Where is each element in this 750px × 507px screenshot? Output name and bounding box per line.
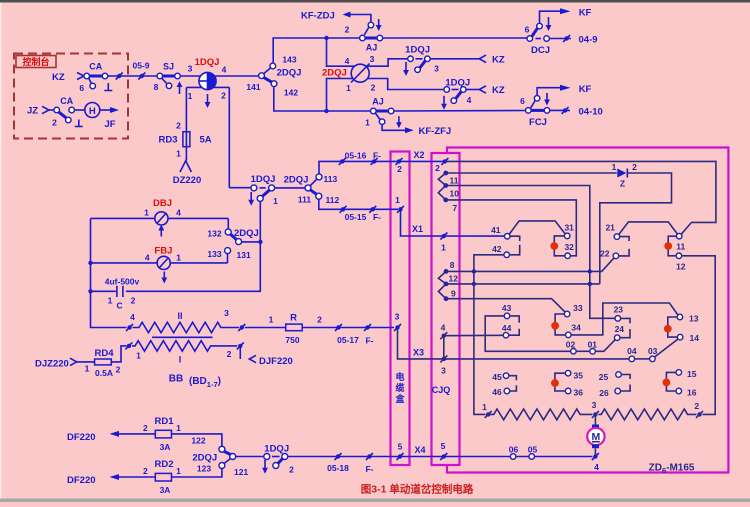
svg-text:2: 2 (371, 83, 376, 93)
CJQ pins 11/10/7 tie (438, 173, 446, 200)
terminal F- (X4 row) (367, 454, 371, 458)
contact group 21/22/11/12 hat arm (619, 222, 677, 235)
svg-text:6: 6 (79, 83, 84, 93)
svg-text:4uf-500v: 4uf-500v (105, 277, 140, 287)
contact group 41/42/31/32 hat arm (509, 221, 565, 234)
contact 24 (614, 335, 620, 341)
svg-text:05-18: 05-18 (327, 463, 349, 473)
svg-text:F-: F- (373, 212, 381, 222)
svg-text:05: 05 (528, 445, 538, 455)
contact 23 (615, 316, 621, 322)
svg-text:图3-1 单动道岔控制电路: 图3-1 单动道岔控制电路 (361, 483, 474, 496)
contact 26 (615, 388, 621, 394)
svg-text:05-9: 05-9 (132, 61, 149, 71)
wire diode return to pin 12 (600, 173, 672, 284)
CJQ pin 1 (442, 234, 446, 238)
svg-text:3A: 3A (160, 442, 171, 452)
svg-text:KZ: KZ (52, 72, 65, 83)
svg-text:RD1: RD1 (154, 416, 174, 427)
contact 41 (504, 233, 510, 239)
coil pin stubs and verticals (186, 86, 229, 88)
svg-text:04-9: 04-9 (579, 35, 598, 46)
contact 44 (503, 332, 509, 338)
wire contact 12 to resistor terminal 2 (682, 256, 715, 415)
terminal F- (R row) (365, 325, 369, 329)
svg-text:5: 5 (441, 441, 446, 451)
motor terminal 4 on X4 row (593, 454, 597, 458)
svg-text:2: 2 (289, 465, 294, 475)
contact 22 (613, 253, 619, 259)
svg-text:F-: F- (373, 151, 381, 161)
wire X4 row (288, 456, 593, 458)
page bottom border (0, 499, 750, 503)
contact AJ (bottom) (376, 110, 390, 113)
terminal 05-18 (336, 454, 340, 458)
wire 113 to 05-16 row (319, 161, 391, 174)
wire pin 8 to contact 22 (446, 258, 614, 271)
wire pin 10 to contact 23 (446, 186, 615, 319)
wire 143 up to top bus (273, 38, 359, 63)
svg-text:10: 10 (450, 189, 460, 199)
svg-text:05-17: 05-17 (337, 335, 359, 345)
contact 31 (564, 233, 570, 239)
svg-text:1: 1 (85, 364, 90, 374)
svg-text:42: 42 (492, 244, 502, 254)
terminal 1 (winding I left) (127, 344, 131, 348)
svg-text:46: 46 (492, 387, 502, 397)
control panel label box (16, 56, 56, 68)
CJQ pins 8/12/9 tie (438, 271, 446, 298)
svg-text:02: 02 (566, 340, 576, 350)
wire 03 diagonal to contact 14 (655, 339, 679, 357)
svg-text:0.5A: 0.5A (95, 368, 113, 378)
page left border (0, 3, 2, 499)
contact AJ (top) (365, 37, 378, 40)
motor resistor winding right (598, 409, 696, 420)
svg-text:3: 3 (592, 400, 597, 410)
wire contact 34 to contact 13 (571, 303, 678, 335)
svg-text:45: 45 (492, 372, 502, 382)
svg-text:14: 14 (690, 333, 700, 343)
bracket 11-12 with closed point (668, 236, 676, 256)
bracket 33-34 with closed point (555, 314, 565, 335)
transformer core (152, 336, 213, 338)
terminal F- (05-16 row) (372, 159, 376, 163)
svg-text:7: 7 (453, 203, 458, 213)
svg-text:11: 11 (676, 242, 685, 252)
wire 121 to 1DQJ contact (236, 456, 264, 458)
svg-text:X4: X4 (414, 445, 425, 455)
bracket 43-44 (509, 316, 519, 335)
svg-text:F-: F- (365, 464, 373, 474)
svg-text:1: 1 (176, 253, 181, 263)
contact DCJ (536, 38, 542, 40)
contact 35 (565, 370, 571, 376)
bracket 25-26 (621, 375, 630, 392)
wire 142 down to bottom bus (274, 87, 371, 111)
svg-text:111: 111 (298, 195, 312, 205)
wire coil pin1 to bottom bus (327, 79, 353, 112)
wire to JF (100, 109, 110, 111)
svg-text:2: 2 (143, 423, 148, 433)
svg-text:22: 22 (600, 248, 610, 258)
svg-text:AJ: AJ (366, 43, 378, 53)
contact 32 (565, 253, 571, 259)
wire left rail (91, 218, 127, 327)
svg-text:15: 15 (687, 369, 697, 379)
contact FCJ (531, 109, 545, 112)
svg-text:3: 3 (434, 64, 439, 74)
wire pin 11 to diode Z (446, 172, 617, 174)
svg-text:1: 1 (269, 315, 274, 325)
contact 02 on 02/01 row (571, 349, 577, 355)
svg-text:II: II (177, 311, 182, 321)
wire RD2 to 123 (172, 469, 222, 478)
svg-text:141: 141 (246, 82, 260, 92)
svg-text:DF220: DF220 (67, 432, 96, 443)
svg-text:2: 2 (345, 25, 350, 35)
svg-text:1: 1 (176, 466, 181, 476)
svg-text:24: 24 (615, 324, 625, 334)
contact 42 (504, 252, 510, 258)
svg-text:X3: X3 (413, 348, 424, 358)
svg-text:1DQJ: 1DQJ (251, 174, 276, 185)
svg-text:I: I (179, 355, 182, 365)
wire top bus to DCJ (383, 37, 527, 39)
svg-text:33: 33 (573, 303, 583, 313)
svg-text:11: 11 (450, 176, 459, 186)
svg-text:4: 4 (176, 208, 181, 218)
svg-text:KF-ZDJ: KF-ZDJ (301, 11, 335, 22)
svg-text:12: 12 (676, 262, 686, 272)
svg-text:1: 1 (136, 351, 141, 361)
svg-text:9: 9 (451, 289, 456, 299)
node junction top bus (324, 36, 328, 40)
svg-text:CA: CA (89, 62, 102, 72)
svg-text:41: 41 (491, 225, 501, 235)
bracket 15-16 with closed point (666, 372, 676, 391)
contact 1DQJ (middle row) (229, 187, 251, 189)
svg-text:04: 04 (627, 346, 637, 356)
contact 21 (614, 234, 620, 240)
wire KZ row (84, 75, 201, 77)
svg-text:AJ: AJ (372, 97, 384, 107)
svg-text:112: 112 (326, 195, 340, 205)
wire coil pin4 from top bus (327, 38, 355, 66)
svg-text:8: 8 (450, 260, 455, 270)
svg-text:KF: KF (579, 8, 592, 19)
svg-text:JF: JF (104, 119, 115, 130)
svg-text:122: 122 (191, 436, 205, 446)
svg-text:控制台: 控制台 (22, 56, 49, 67)
svg-text:23: 23 (614, 305, 624, 315)
indicator H (75, 109, 85, 111)
control panel dashed box 控制台 (14, 54, 128, 139)
motor resistor terminal 2 (697, 412, 701, 416)
svg-text:121: 121 (234, 467, 248, 477)
svg-text:6: 6 (520, 96, 525, 106)
bracket 13-14 with closed point (668, 317, 678, 337)
svg-text:05-15: 05-15 (345, 212, 367, 222)
terminal 05-15 (341, 207, 345, 211)
wire X2 row through cable box (391, 160, 447, 162)
svg-text:3: 3 (188, 64, 193, 74)
wire pin 12 row (446, 283, 600, 285)
svg-text:750: 750 (285, 335, 299, 345)
svg-text:1: 1 (144, 208, 149, 218)
svg-text:142: 142 (284, 88, 298, 98)
bracket 45-46 (509, 376, 517, 391)
svg-text:4: 4 (441, 323, 446, 333)
wire KF-ZDJ (350, 15, 371, 23)
svg-text:2: 2 (632, 162, 637, 172)
svg-text:FCJ: FCJ (529, 117, 547, 128)
svg-text:1DQJ: 1DQJ (195, 57, 220, 68)
terminal 05-16 (340, 159, 344, 163)
terminal 04-10 (550, 109, 570, 111)
svg-text:DCJ: DCJ (531, 45, 550, 56)
motor resistor tap 3 (593, 412, 597, 416)
svg-text:4: 4 (467, 95, 472, 105)
wire KF-ZFJ (382, 125, 405, 131)
contact 43 (504, 313, 510, 319)
svg-text:1: 1 (395, 195, 400, 205)
wire DCJ to KF (540, 11, 561, 23)
contact 36 (565, 388, 571, 394)
svg-text:SJ: SJ (163, 62, 174, 72)
svg-text:131: 131 (237, 250, 251, 260)
svg-text:KZ: KZ (492, 55, 505, 66)
wire X1 route (401, 209, 505, 236)
svg-text:3: 3 (370, 54, 375, 64)
svg-text:1: 1 (273, 196, 278, 206)
svg-text:H: H (89, 106, 96, 117)
contact 01 on 02/01 row (576, 350, 589, 352)
svg-text:25: 25 (599, 372, 609, 382)
contact 13 (677, 314, 683, 320)
svg-text:RD4: RD4 (94, 348, 114, 359)
svg-text:X2: X2 (413, 150, 424, 160)
svg-text:缆: 缆 (395, 382, 404, 393)
svg-text:F-: F- (365, 336, 373, 346)
svg-text:2: 2 (52, 118, 57, 128)
svg-text:8: 8 (154, 82, 159, 92)
svg-text:05-16: 05-16 (345, 151, 367, 161)
power DZ220 (180, 161, 191, 172)
terminal 04-9 (549, 38, 571, 40)
bracket 23-24 (620, 318, 630, 337)
svg-text:123: 123 (197, 464, 211, 474)
svg-text:2: 2 (143, 466, 148, 476)
contact 141/143/142 (2DQJ) (259, 73, 265, 79)
wire FCJ to KF (537, 88, 560, 96)
svg-text:1: 1 (188, 91, 193, 101)
wire coil pin3 to 1DQJ(3) contact (366, 59, 408, 66)
bracket 41-42 (510, 236, 520, 255)
cable terminal box 电缆盒 (391, 152, 410, 466)
svg-text:3A: 3A (160, 485, 171, 495)
svg-text:2DQJ: 2DQJ (192, 453, 217, 464)
svg-text:01: 01 (588, 340, 598, 350)
wire FBJ to 133 (227, 254, 229, 263)
svg-text:2: 2 (227, 349, 232, 359)
contact 11 (676, 233, 682, 239)
contact 45 (503, 373, 509, 379)
svg-text:X1: X1 (412, 224, 423, 234)
svg-text:3: 3 (224, 308, 229, 318)
wire 112 to 05-15 row (319, 199, 398, 209)
svg-text:1: 1 (176, 423, 181, 433)
svg-text:21: 21 (605, 223, 615, 233)
svg-text:36: 36 (574, 388, 584, 398)
svg-text:FBJ: FBJ (154, 246, 172, 257)
big machine box ZD6 (447, 148, 728, 473)
contact 25 (616, 372, 622, 378)
svg-text:16: 16 (687, 388, 697, 398)
svg-text:26: 26 (599, 388, 609, 398)
contact 14 (677, 334, 683, 340)
diode Z (617, 169, 626, 178)
wire to R (245, 327, 286, 329)
svg-text:CJQ: CJQ (432, 385, 451, 395)
svg-text:KF-ZFJ: KF-ZFJ (419, 126, 452, 137)
svg-text:2: 2 (176, 121, 181, 131)
contact 16 (676, 388, 682, 394)
svg-text:132: 132 (207, 229, 221, 239)
svg-text:2: 2 (116, 365, 121, 375)
wire RD4 to winding I (111, 346, 126, 362)
svg-text:1: 1 (612, 162, 617, 172)
svg-text:2: 2 (317, 315, 322, 325)
svg-text:2DQJ: 2DQJ (277, 68, 302, 79)
svg-text:4: 4 (345, 56, 350, 66)
junction at panel edge (117, 74, 121, 78)
svg-text:2: 2 (694, 401, 699, 411)
svg-text:35: 35 (574, 371, 584, 381)
wire coil pin2 to 1DQJ(4) contact (368, 79, 444, 90)
svg-text:DBJ: DBJ (153, 198, 172, 209)
svg-text:31: 31 (564, 222, 574, 232)
svg-text:CA: CA (60, 96, 73, 106)
contact 12 (676, 253, 682, 259)
svg-text:4: 4 (594, 462, 599, 472)
motor resistor terminal 1 (486, 412, 490, 416)
contact 15 (676, 370, 682, 376)
svg-text:34: 34 (571, 323, 581, 333)
svg-text:4: 4 (145, 253, 150, 263)
svg-text:RD2: RD2 (154, 459, 173, 470)
svg-text:DJF220: DJF220 (259, 356, 293, 367)
wire CJQ pin 4 to contact 44 (444, 334, 503, 336)
wire RD1 to 122 (172, 434, 222, 446)
wire to DJF220 (239, 346, 241, 359)
svg-text:Z: Z (620, 179, 625, 189)
bracket 35-36 with closed point (555, 373, 565, 391)
wire contact 42 down to resistor terminal 1 (474, 255, 504, 415)
svg-text:2: 2 (131, 296, 136, 306)
svg-text:KF: KF (579, 84, 592, 95)
wire DBJ to 132 (227, 218, 229, 229)
wire CJQ pin4 to pin3 (443, 336, 445, 359)
svg-text:32: 32 (564, 242, 574, 252)
svg-text:1: 1 (346, 83, 351, 93)
terminal 4 (winding II left) (127, 325, 131, 329)
CJQ pin 3 (442, 357, 446, 361)
svg-text:3: 3 (441, 366, 446, 376)
page top border (0, 0, 750, 3)
wire pin 7 to contact 32 (446, 200, 577, 256)
svg-text:13: 13 (689, 314, 699, 324)
svg-text:5A: 5A (200, 135, 212, 146)
bracket 21-22 (619, 237, 629, 256)
contact 06 on X4 row (510, 454, 516, 460)
wire coil to 141 (215, 75, 260, 77)
wire 131 to junction (242, 241, 261, 243)
svg-text:04-10: 04-10 (579, 107, 603, 118)
svg-text:1DQJ: 1DQJ (445, 78, 470, 89)
svg-text:JZ: JZ (27, 106, 38, 117)
svg-text:6: 6 (525, 25, 530, 35)
contact 34 (566, 332, 572, 338)
junction box CJQ (432, 153, 460, 465)
svg-text:2DQJ: 2DQJ (234, 228, 259, 239)
svg-text:1: 1 (176, 149, 181, 159)
svg-text:03: 03 (648, 346, 658, 356)
svg-text:06: 06 (509, 445, 519, 455)
cable box pin 2 (X2) (397, 159, 401, 163)
svg-text:5: 5 (398, 442, 403, 452)
terminal 05-17 (336, 325, 340, 329)
junction dots pins 8/12 crossings (472, 269, 476, 273)
svg-text:2: 2 (397, 164, 402, 174)
wire bottom bus to FCJ (394, 110, 526, 113)
CJQ pin 2 (443, 159, 447, 163)
wire X3 row (398, 328, 630, 359)
svg-text:DJZ220: DJZ220 (35, 359, 69, 370)
svg-text:2: 2 (221, 91, 226, 101)
svg-text:2DQJ: 2DQJ (284, 175, 309, 186)
svg-text:KZ: KZ (492, 85, 505, 96)
svg-text:BB: BB (169, 374, 183, 385)
motor M (594, 414, 596, 424)
motor resistor winding left (488, 409, 592, 420)
terminal F- (05-15 row) (371, 207, 375, 211)
contact 46 (504, 388, 510, 394)
svg-text:盒: 盒 (394, 393, 405, 404)
svg-text:ZD6-M165: ZD6-M165 (649, 463, 695, 476)
wire X2 pin2 run to contact 11 (445, 161, 716, 234)
svg-text:R: R (290, 313, 297, 324)
svg-text:2: 2 (435, 163, 440, 173)
svg-text:RD3: RD3 (158, 135, 177, 146)
svg-text:43: 43 (502, 303, 512, 313)
svg-text:C: C (117, 301, 123, 311)
svg-text:12: 12 (449, 274, 459, 284)
svg-text:DF220: DF220 (67, 475, 96, 486)
svg-text:1: 1 (441, 243, 446, 253)
svg-text:143: 143 (282, 55, 296, 65)
svg-text:1: 1 (365, 118, 370, 128)
contact 04 on X3 row (629, 356, 635, 362)
contact 05 on X4 row (529, 454, 535, 460)
wire 01 row diagonal to contact 24 (596, 340, 616, 352)
node junction bottom bus (324, 109, 328, 113)
bracket 43 left to 02/01 row (485, 316, 570, 351)
svg-text:44: 44 (502, 323, 512, 333)
wire pin 9 to contact 33 (446, 299, 565, 312)
svg-text:电: 电 (395, 371, 404, 382)
svg-text:4: 4 (130, 312, 135, 322)
